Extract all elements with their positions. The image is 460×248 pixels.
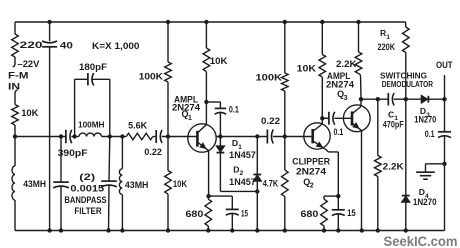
svg-text:2N274: 2N274 <box>296 165 327 176</box>
svg-text:–22V: –22V <box>18 59 40 69</box>
svg-text:F-M: F-M <box>8 69 29 80</box>
svg-text:100MH: 100MH <box>78 119 105 129</box>
svg-text:1: 1 <box>386 34 390 41</box>
svg-text:10K: 10K <box>21 107 38 118</box>
svg-text:0.1: 0.1 <box>334 127 344 137</box>
svg-text:2N274: 2N274 <box>326 79 355 90</box>
svg-text:(2): (2) <box>79 172 95 182</box>
svg-text:0.22: 0.22 <box>144 147 162 157</box>
svg-text:220K: 220K <box>378 42 396 52</box>
svg-text:180pF: 180pF <box>79 62 108 72</box>
svg-text:680: 680 <box>301 208 319 219</box>
svg-text:100K: 100K <box>139 71 163 82</box>
svg-text:IN: IN <box>8 80 20 91</box>
svg-text:220: 220 <box>20 39 43 50</box>
svg-text:390pF: 390pF <box>58 148 89 158</box>
svg-text:43MH: 43MH <box>125 180 148 190</box>
svg-text:K=X 1,000: K=X 1,000 <box>92 41 140 51</box>
svg-text:FILTER: FILTER <box>74 206 102 216</box>
svg-text:SeekIC.com: SeekIC.com <box>384 234 458 248</box>
svg-text:2: 2 <box>310 182 314 189</box>
svg-text:2: 2 <box>240 170 244 177</box>
svg-text:0.22: 0.22 <box>261 115 280 126</box>
svg-text:OUT: OUT <box>436 59 453 70</box>
svg-text:2.2K: 2.2K <box>336 58 357 69</box>
svg-text:470pF: 470pF <box>383 120 404 130</box>
svg-text:1N270: 1N270 <box>413 197 437 207</box>
svg-text:15: 15 <box>241 208 248 218</box>
svg-text:40: 40 <box>60 40 73 51</box>
svg-text:1: 1 <box>188 115 192 122</box>
svg-text:4.7K: 4.7K <box>263 178 279 188</box>
svg-text:0.0015: 0.0015 <box>70 184 104 194</box>
svg-text:0.1: 0.1 <box>229 105 239 115</box>
svg-text:1N457: 1N457 <box>229 177 256 187</box>
svg-text:3: 3 <box>344 95 348 102</box>
svg-text:1N270: 1N270 <box>414 115 436 125</box>
svg-text:0.1: 0.1 <box>425 129 435 139</box>
svg-text:680: 680 <box>186 208 204 219</box>
svg-text:DEMODULATOR: DEMODULATOR <box>382 79 434 89</box>
svg-text:10K: 10K <box>210 55 228 66</box>
svg-text:15: 15 <box>347 208 356 218</box>
svg-text:10K: 10K <box>173 179 188 189</box>
svg-text:2.2K: 2.2K <box>383 161 405 171</box>
svg-text:10K: 10K <box>297 62 317 73</box>
svg-text:100K: 100K <box>256 71 283 82</box>
svg-text:1N457: 1N457 <box>229 150 256 160</box>
svg-text:5.6K: 5.6K <box>128 120 148 130</box>
svg-text:43MH: 43MH <box>23 179 46 189</box>
svg-text:BANDPASS: BANDPASS <box>64 195 106 205</box>
